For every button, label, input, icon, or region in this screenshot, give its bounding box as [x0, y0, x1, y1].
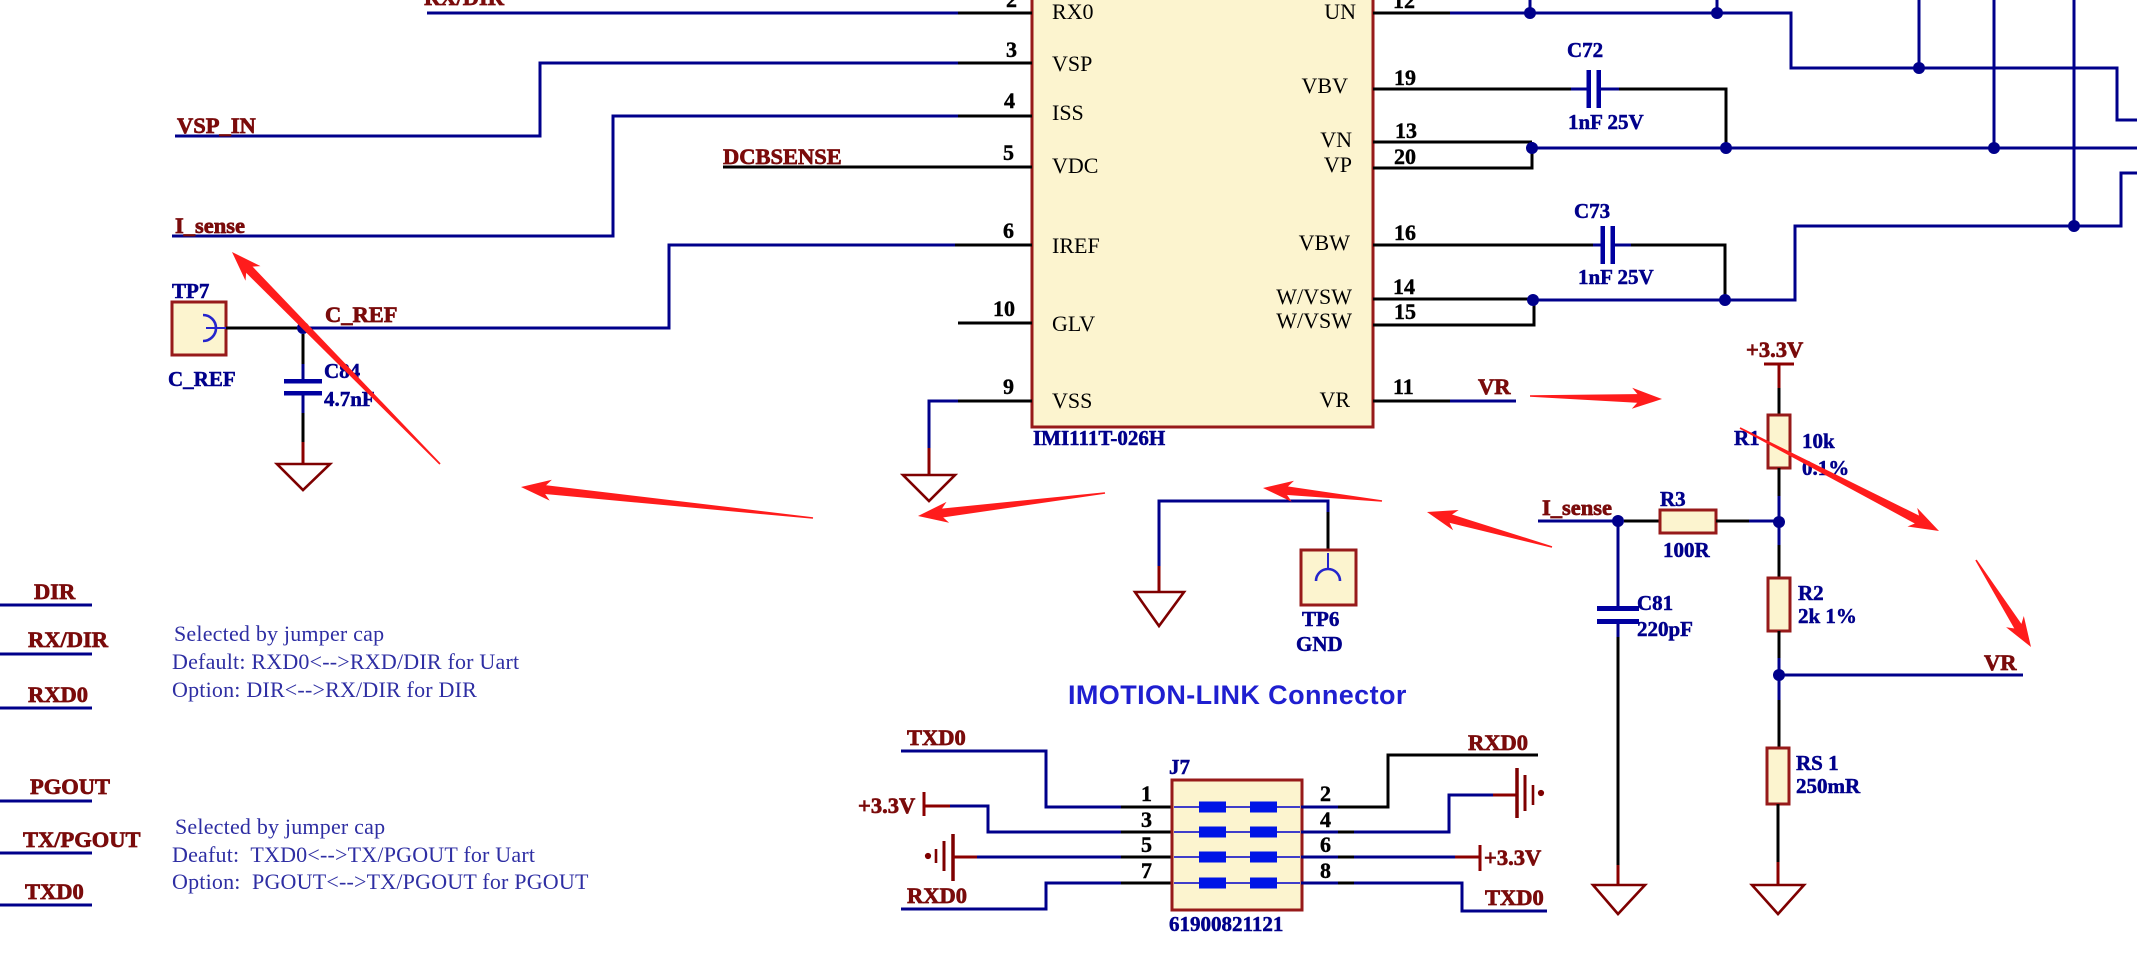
svg-text:Option: PGOUT<-->TX/PGOUT for: Option: PGOUT<-->TX/PGOUT for PGOUT	[172, 869, 589, 894]
wire pin 4 stub (black)	[958, 115, 1032, 118]
ground symbol below RS1	[1752, 885, 1804, 914]
red annotation arrow A1	[232, 252, 261, 281]
svg-text:W/VSW: W/VSW	[1276, 284, 1352, 309]
wire C81 top lead (navy)	[1617, 521, 1620, 607]
svg-text:C_REF: C_REF	[168, 367, 236, 391]
wire earth to J7 pin 5 (navy)	[977, 856, 1121, 859]
wire pin 6 +3.3V lead (red)	[1455, 856, 1480, 859]
svg-text:6: 6	[1003, 218, 1014, 243]
svg-text:VSS: VSS	[1052, 388, 1092, 413]
svg-text:TX/PGOUT: TX/PGOUT	[23, 827, 141, 852]
wire pin 15 W/VSW stub (black)	[1373, 299, 1534, 325]
svg-text:1nF 25V: 1nF 25V	[1578, 265, 1654, 289]
svg-text:13: 13	[1395, 118, 1417, 143]
svg-text:VDC: VDC	[1052, 153, 1098, 178]
svg-text:+3.3V: +3.3V	[858, 793, 915, 818]
svg-text:C_REF: C_REF	[325, 302, 398, 327]
svg-text:Option: DIR<-->RX/DIR for DIR: Option: DIR<-->RX/DIR for DIR	[172, 677, 477, 702]
svg-text:TP6: TP6	[1302, 607, 1339, 631]
wire RS1 bottom lead	[1777, 804, 1780, 863]
svg-text:61900821121: 61900821121	[1169, 912, 1283, 936]
svg-text:Selected by jumper cap: Selected by jumper cap	[175, 814, 385, 839]
power symbol +3.3V (J7 right) bar	[1479, 845, 1482, 871]
svg-text:TXD0: TXD0	[907, 725, 966, 750]
svg-text:I_sense: I_sense	[175, 213, 245, 238]
wire pin 13 VN stub (black)	[1373, 141, 1532, 144]
capacitor C72 plates	[1587, 70, 1592, 108]
capacitor C81 plates	[1597, 606, 1639, 611]
wire net RX/DIR to pin 2 (navy)	[427, 12, 958, 15]
junction on UN net at x=1530	[1524, 7, 1536, 19]
wire J7 pin 3 stub (black)	[1121, 831, 1173, 834]
red annotation arrow B2	[918, 502, 949, 523]
wire net VR stub (navy)	[1450, 400, 1516, 403]
ground symbol below pin 9	[903, 475, 955, 501]
svg-text:TXD0: TXD0	[25, 879, 84, 904]
svg-text:C73: C73	[1574, 199, 1610, 223]
wire TP6 top lead (black)	[1327, 512, 1330, 550]
red annotation arrow B1	[521, 480, 552, 501]
wire +3.3V to J7 pin 3 (navy)	[950, 806, 1121, 832]
svg-text:5: 5	[1141, 832, 1152, 857]
junction I_sense / C81	[1612, 515, 1624, 527]
svg-text:RXD0: RXD0	[28, 682, 88, 707]
svg-text:I_sense: I_sense	[1542, 495, 1612, 520]
svg-text:DCBSENSE: DCBSENSE	[723, 144, 842, 169]
junction W/VSW at x=2074	[2068, 220, 2080, 232]
wire earth to J7 pin 5 (red stub)	[953, 856, 977, 859]
wire C84 bottom lead	[302, 395, 305, 413]
svg-text:DIR: DIR	[34, 579, 76, 604]
wire C73 return to W/VSW net (black)	[1631, 245, 1725, 300]
test point TP7 body	[172, 302, 226, 355]
wire J7 pin 7 stub (black)	[1121, 882, 1173, 885]
svg-text:9: 9	[1003, 374, 1014, 399]
wire pin 20 VP stub (black)	[1373, 142, 1532, 168]
wire pin 10 GLV stub (black)	[958, 322, 1032, 325]
wire J7 pin 8 stub	[1301, 882, 1356, 885]
svg-text:10k: 10k	[1802, 429, 1835, 453]
earth ground symbol (J7 right)	[1517, 768, 1543, 818]
junction R2/RS1/VR node	[1773, 669, 1785, 681]
wire J7 pin 4 stub	[1301, 831, 1356, 834]
wire stub DIR	[0, 604, 92, 607]
junction VN/VP at x=1726	[1720, 142, 1732, 154]
svg-text:RS 1: RS 1	[1796, 751, 1839, 775]
svg-text:GLV: GLV	[1052, 311, 1095, 336]
svg-text:RX/DIR: RX/DIR	[424, 0, 505, 10]
wire stub up from node at x=1717	[1716, 0, 1719, 13]
svg-text:IMI111T-026H: IMI111T-026H	[1033, 426, 1165, 450]
svg-text:Deafut: TXD0<-->TX/PGOUT for: Deafut: TXD0<-->TX/PGOUT for Uart	[172, 842, 535, 867]
junction W/VSW at x=1725	[1719, 294, 1731, 306]
junction R1/R2/R3 node	[1773, 516, 1785, 528]
svg-text:RXD0: RXD0	[1468, 730, 1528, 755]
wire stub TXD0	[0, 904, 92, 907]
svg-text:C81: C81	[1637, 591, 1673, 615]
wire pin 19 VBV to C72 (black)	[1373, 88, 1573, 91]
wire R2 bottom lead	[1778, 631, 1781, 659]
svg-text:3: 3	[1141, 807, 1152, 832]
svg-text:Selected by jumper cap: Selected by jumper cap	[174, 621, 384, 646]
red annotation arrow C1	[1263, 481, 1294, 502]
wire pin 11 VR stub (black)	[1373, 400, 1450, 403]
wire R1 bottom lead	[1778, 468, 1781, 497]
svg-text:2: 2	[1320, 781, 1331, 806]
svg-text:Default: RXD0<-->RXD/DIR for U: Default: RXD0<-->RXD/DIR for Uart	[172, 649, 519, 674]
earth ground symbol (J7 left)	[926, 834, 953, 881]
test point TP7 internal stub	[206, 327, 226, 329]
svg-text:0.1%: 0.1%	[1802, 456, 1849, 480]
svg-text:J7: J7	[1169, 755, 1190, 779]
capacitor C73 left stub (navy)	[1593, 244, 1601, 247]
wire net DCBSENSE to pin 5 (black)	[723, 166, 1032, 169]
connector J7 internal row wires	[1174, 807, 1300, 883]
svg-text:4: 4	[1320, 807, 1331, 832]
wire J7 pin 5 stub (black)	[1121, 856, 1173, 859]
wire stub up from node at x=1530	[1529, 0, 1532, 13]
wire net C_REF to pin 6 (navy)	[297, 245, 955, 328]
svg-text:8: 8	[1320, 858, 1331, 883]
svg-text:6: 6	[1320, 832, 1331, 857]
wire pin 2 stub (black)	[958, 12, 1032, 15]
svg-text:14: 14	[1393, 274, 1415, 299]
wire R2 top lead	[1778, 522, 1781, 546]
red annotation arrow F	[1908, 508, 1940, 531]
svg-text:IMOTION-LINK Connector: IMOTION-LINK Connector	[1068, 680, 1407, 710]
wire net RXD0 to J7 pin 7 (navy)	[901, 883, 1121, 909]
wire +3.3V to R1 (red)	[1778, 364, 1781, 388]
svg-text:16: 16	[1394, 220, 1416, 245]
wire J7 pin 2 stub (navy+black)	[1301, 806, 1340, 809]
svg-text:20: 20	[1394, 144, 1416, 169]
svg-text:100R: 100R	[1663, 538, 1711, 562]
wire net TXD0 right (navy)	[1354, 883, 1547, 911]
svg-text:VR: VR	[1984, 650, 2017, 675]
wire TP6 to ground (navy)	[1159, 501, 1328, 568]
junction W/VSW at x=1533	[1527, 294, 1539, 306]
svg-text:5: 5	[1003, 140, 1014, 165]
test point TP7 probe arc	[203, 315, 216, 341]
junction on UN net at x=1717	[1711, 7, 1723, 19]
resistor R1 body	[1768, 415, 1790, 468]
wire pin 9 VSS stub (black)	[956, 400, 1032, 403]
wire C84 top lead	[302, 334, 305, 366]
wire pin 3 stub (black)	[958, 62, 1032, 65]
svg-text:PGOUT: PGOUT	[30, 774, 110, 799]
svg-text:250mR: 250mR	[1796, 774, 1861, 798]
svg-text:19: 19	[1394, 65, 1416, 90]
svg-text:R3: R3	[1660, 487, 1686, 511]
svg-text:RX0: RX0	[1052, 0, 1094, 24]
wire net UN (navy)	[1450, 13, 2137, 120]
svg-text:R1: R1	[1734, 426, 1760, 450]
svg-text:1nF 25V: 1nF 25V	[1568, 110, 1644, 134]
svg-text:7: 7	[1141, 858, 1152, 883]
wire pin 4 to earth (navy)	[1354, 795, 1494, 832]
wire pin 9 to ground (navy)	[929, 401, 958, 449]
wire J7 pin 6 stub	[1301, 856, 1356, 859]
svg-text:W/VSW: W/VSW	[1276, 308, 1352, 333]
power symbol +3.3V (J7 left) bar	[923, 792, 926, 816]
svg-text:3: 3	[1006, 37, 1017, 62]
svg-text:VBW: VBW	[1299, 230, 1351, 255]
ground symbol left of TP6	[1135, 592, 1184, 626]
svg-text:UN: UN	[1324, 0, 1356, 24]
svg-text:220pF: 220pF	[1637, 617, 1693, 641]
svg-text:C72: C72	[1567, 38, 1603, 62]
IC U1 IMI111T-026H body	[1032, 0, 1373, 427]
wire R3 to R1/R2 node (black then navy)	[1716, 520, 1750, 523]
wire pin 9 ground lead (red)	[928, 448, 931, 475]
wire pin 12 UN stub (black)	[1373, 12, 1450, 15]
capacitor C73 plates	[1601, 226, 1606, 264]
svg-text:2: 2	[1006, 0, 1017, 12]
wire TP7 to junction (black)	[226, 327, 297, 330]
test point TP6 body	[1301, 550, 1356, 605]
wire RS1 top lead	[1778, 675, 1781, 701]
wire net VSP_IN to pin 3 (navy)	[175, 63, 958, 136]
junction VN/VP at x=1532	[1526, 142, 1538, 154]
resistor R3 body	[1660, 510, 1716, 533]
svg-text:VP: VP	[1324, 152, 1352, 177]
ground symbol below C81	[1593, 885, 1645, 914]
ground symbol below C84	[277, 464, 330, 490]
svg-text:GND: GND	[1296, 632, 1343, 656]
svg-text:10: 10	[993, 296, 1015, 321]
junction at TP7 / C84 node	[297, 322, 309, 334]
wire stub RXD0	[0, 707, 92, 710]
capacitor C84 plates	[284, 379, 322, 384]
wire stub TX/PGOUT	[0, 852, 92, 855]
svg-text:TXD0: TXD0	[1485, 885, 1544, 910]
svg-text:12: 12	[1393, 0, 1415, 13]
svg-text:VSP: VSP	[1052, 51, 1092, 76]
connector J7 pin pads (blue dashes)	[1199, 802, 1277, 889]
junction VN/VP at x=1994	[1988, 142, 2000, 154]
wire R1 top lead (black)	[1778, 388, 1781, 415]
power symbol +3.3V (above R1) bar	[1764, 363, 1794, 366]
wire +3.3V to J7 pin 3 (red stub)	[924, 805, 950, 808]
wire C81 bottom lead	[1617, 624, 1620, 638]
svg-text:+3.3V: +3.3V	[1484, 845, 1541, 870]
wire I_sense junction to R3 (black)	[1624, 520, 1660, 523]
svg-text:VR: VR	[1478, 374, 1511, 399]
svg-text:2k 1%: 2k 1%	[1798, 604, 1857, 628]
svg-text:11: 11	[1393, 374, 1414, 399]
svg-text:ISS: ISS	[1052, 100, 1084, 125]
red annotation arrow E	[1632, 388, 1662, 409]
red annotation arrow G	[2006, 616, 2031, 647]
svg-text:1: 1	[1141, 781, 1152, 806]
svg-text:+3.3V: +3.3V	[1746, 337, 1803, 362]
wire pin 6 to +3.3V (navy)	[1354, 856, 1455, 859]
resistor RS1 body	[1767, 748, 1789, 804]
capacitor C72 left stub (navy)	[1571, 88, 1587, 91]
junction on UN net at x=1919	[1913, 62, 1925, 74]
svg-text:VN: VN	[1320, 127, 1352, 152]
wire J7 pin 1 stub (black)	[1121, 806, 1173, 809]
test point TP6 internal stub	[1327, 553, 1329, 569]
wire vertical from top at x=1919	[1918, 0, 1921, 68]
wire pin 4 earth lead (red)	[1493, 794, 1516, 797]
wire stub PGOUT	[0, 800, 92, 803]
red annotation arrow C2	[1427, 510, 1459, 530]
wire net I_sense to pin 4 (navy)	[172, 116, 958, 236]
svg-text:VR: VR	[1319, 387, 1350, 412]
wire vertical from top at x=1994	[1993, 0, 1996, 148]
svg-text:VSP_IN: VSP_IN	[177, 113, 256, 138]
svg-text:IREF: IREF	[1052, 233, 1100, 258]
svg-text:4: 4	[1004, 88, 1015, 113]
svg-text:15: 15	[1394, 299, 1416, 324]
test point TP6 probe arc	[1316, 569, 1340, 581]
wire net I_sense stub (navy)	[1538, 520, 1618, 523]
wire pin 6 stub (black)	[955, 244, 1032, 247]
wire net W/VSW (navy)	[1533, 173, 2137, 300]
connector J7 body	[1172, 780, 1302, 910]
wire pin 14 W/VSW stub (black)	[1373, 298, 1534, 301]
svg-text:RXD0: RXD0	[907, 883, 967, 908]
capacitor C73 right stub (navy)	[1615, 244, 1631, 247]
svg-text:RX/DIR: RX/DIR	[28, 627, 109, 652]
wire pin 16 VBW to C73 (black)	[1373, 244, 1595, 247]
capacitor C72 right stub (navy)	[1601, 88, 1619, 91]
wire ground lead (red)	[1158, 566, 1161, 592]
wire C72 return to VN/VP net (black)	[1619, 89, 1726, 148]
resistor R2 body	[1768, 578, 1790, 631]
wire net VN/VP (navy)	[1532, 147, 2137, 150]
wire net RXD0 right (black)	[1338, 755, 1538, 807]
wire net VR (navy)	[1779, 674, 2023, 677]
svg-text:R2: R2	[1798, 581, 1824, 605]
svg-text:TP7: TP7	[172, 279, 209, 303]
wire stub RX/DIR	[0, 653, 92, 656]
wire vertical from top at x=2074	[2073, 0, 2076, 226]
svg-text:VBV: VBV	[1302, 73, 1349, 98]
wire net TXD0 to J7 pin 1 (navy)	[901, 751, 1121, 807]
